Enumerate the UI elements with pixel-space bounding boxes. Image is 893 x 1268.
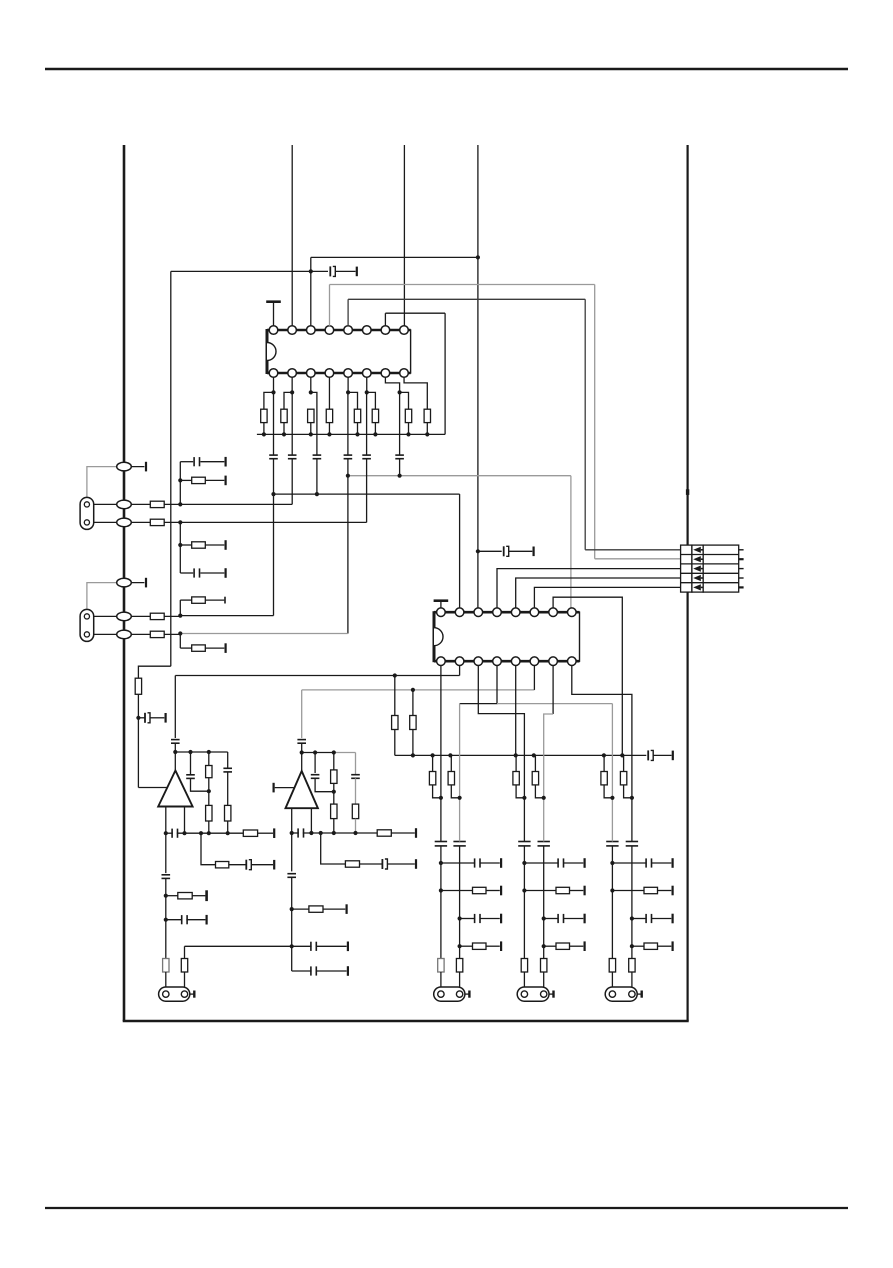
terminal op1 row3 [205, 890, 208, 901]
op-amp U3A [158, 771, 192, 807]
resistor group1 bias [448, 772, 454, 785]
wire cap to op2 bus [301, 743, 303, 752]
capacitor op1 fb [186, 775, 195, 779]
wire op1 conn a [165, 972, 167, 990]
wire group2 resistor top [515, 755, 517, 771]
wire op2 chain c upper [355, 753, 357, 775]
wire resistor pin4 to bus [328, 423, 330, 435]
wire group3 line B low [631, 972, 633, 990]
resistor net E to bus [410, 716, 416, 730]
wire pin5 chain lower [347, 459, 349, 634]
wire resistor pin5 to bus [357, 423, 359, 435]
wire U2 pin5 to CN2 row4 [516, 578, 681, 612]
wire group2 line B [543, 755, 545, 841]
terminal group2 row [583, 941, 585, 951]
wire op2 output line b [303, 832, 377, 834]
resistor pin8 [424, 409, 430, 422]
wire U2 pin4 to group1B [459, 704, 461, 756]
terminal group3 row [671, 886, 673, 896]
junction pin7 [398, 390, 402, 394]
junction pin2 [290, 390, 294, 394]
wire net R2 down [594, 285, 596, 559]
junction op2 out r lead [309, 831, 313, 835]
junction resistor pin1 bus [262, 432, 266, 436]
resistor oval5 [150, 613, 164, 619]
wire op2 chain c low [355, 819, 357, 833]
resistor group1 out A [438, 959, 444, 973]
wire op2 r chain upper [333, 753, 335, 770]
wire net C horizontal [274, 493, 460, 495]
resistor op1 conn b [181, 959, 187, 973]
capacitor op1 input [171, 740, 180, 744]
wire net V3 from top to U2 pin3 [477, 145, 479, 612]
wire group3 row [632, 945, 644, 947]
wire oval2 to resistor [124, 503, 150, 505]
wire op1 r chain low [208, 821, 210, 833]
wire oval4 stub [124, 582, 144, 584]
junction pin7 chain gray net [398, 474, 402, 478]
wire U2 pin2 drop [459, 661, 461, 675]
terminal oval6 resistor [225, 643, 227, 653]
wire oval2 branch up [179, 462, 181, 505]
junction pin6 [365, 390, 369, 394]
wire U1 pin5 up [347, 299, 349, 326]
wire group1 resistor to line [433, 785, 441, 798]
junction resistor pin2 bus [282, 432, 286, 436]
capacitor group1 row [475, 914, 480, 923]
wire oval2 resistor to terminal [205, 479, 224, 481]
resistor oval6 [150, 631, 164, 637]
wire CN1a hole1 to oval2 [94, 503, 117, 505]
wire group3 row [632, 918, 647, 920]
wire op2 r chain mid [333, 783, 335, 804]
wire oval6 branch down [179, 634, 181, 649]
junction resistor pin8 bus [425, 432, 429, 436]
junction group2 row [522, 888, 526, 892]
capacitor bus2 [648, 750, 653, 760]
junction group2 bias [542, 796, 546, 800]
terminal group1 row [500, 914, 502, 924]
terminal op2 row3 [346, 904, 348, 914]
wire group1 row [460, 945, 473, 947]
resistor oval2 [150, 501, 164, 507]
wire net E down to op2 cap [301, 690, 303, 738]
resistor pin3 [308, 409, 314, 422]
wire pin3 jog down [311, 392, 317, 451]
wire group2 row [524, 890, 556, 892]
junction resistor pin4 bus [327, 432, 331, 436]
wire op1 row4 [166, 919, 183, 921]
connector CN2 arrow pin4 [693, 575, 703, 581]
terminal input branch [165, 713, 167, 723]
wire gray net to U2 pin8 [348, 475, 571, 477]
wire U2 pin7 down [552, 666, 554, 715]
junction op1 bus apex [173, 750, 177, 754]
wire group2 row [544, 918, 559, 920]
junction net D / R chain [393, 673, 397, 677]
wire oval6 net [180, 633, 348, 635]
capacitor op1 c [223, 768, 232, 772]
terminal oval5 resistor [224, 597, 226, 604]
wire U2 pin4 jog [460, 666, 497, 704]
wire group3 line A [611, 755, 613, 841]
wire op1 chain c mid [227, 772, 229, 805]
connector CN1a [80, 497, 94, 529]
wire V3 cap to terminal [509, 550, 533, 552]
terminal op2 row2 [415, 859, 417, 869]
resistor group2 bias [532, 772, 538, 785]
wire group2 row [544, 945, 556, 947]
connector CN2 arrow pin2 [693, 556, 703, 562]
terminal of C1 [356, 267, 358, 277]
wire group2 line B low [543, 972, 545, 990]
junction op1 bus a [188, 750, 192, 754]
wire op1 r chain upper [208, 752, 210, 766]
junction oval3 branch [178, 520, 182, 524]
resistor op2 fb1 [331, 770, 337, 784]
wire pin6 resistor branch [367, 392, 376, 409]
wire pin5 resistor branch [348, 392, 357, 409]
junction group1 bias [439, 796, 443, 800]
junction net F op2 [290, 944, 294, 948]
junction net E / R chain [411, 688, 415, 692]
resistor group2 row [556, 943, 570, 949]
junction op2 row3 [290, 907, 294, 911]
connector CN2 arrow pin1 [693, 547, 703, 553]
wire group3 resistor top [623, 755, 625, 771]
wire U1 pin7 down jog [385, 377, 399, 392]
capacitor op1 input branch [145, 713, 150, 723]
wire group3 resistor to line [604, 785, 612, 798]
wire group2 resistor to line [535, 785, 543, 798]
wire net D resistor drop [394, 676, 396, 716]
junction op2 out c1 [332, 831, 336, 835]
capacitor op2 input [297, 740, 306, 744]
wire group2 line A mid [523, 846, 525, 959]
junction bus2 [532, 753, 536, 757]
capacitor pin1 chain [269, 455, 278, 459]
junction group2 row [542, 944, 546, 948]
capacitor op2 left [287, 874, 296, 878]
wire pin6 chain [366, 392, 368, 455]
junction bus2 [431, 753, 435, 757]
wire group1 resistor to line [451, 785, 459, 798]
wire resistor pin3 to bus [310, 423, 312, 435]
wire op2 inverting input [275, 787, 294, 789]
wire group2 line A low [523, 972, 525, 990]
wire group2 line A [523, 755, 525, 841]
junction net A / V3 [476, 255, 480, 259]
wire op1 conn b [184, 946, 186, 989]
wire op2 apex [301, 753, 303, 772]
wire op1 base left lead [165, 807, 167, 834]
junction group3 bias [630, 796, 634, 800]
wire group1 line A [440, 755, 442, 841]
terminal oval4 [145, 578, 147, 588]
wire op2 out to terminal [391, 832, 415, 834]
wire resistor pin8 to bus [426, 423, 428, 435]
wire group2 rowb [570, 890, 584, 892]
wire U1 pin6 down [366, 377, 368, 392]
capacitor group1 line B [453, 842, 465, 846]
wire op2 row5b [316, 970, 347, 972]
wire group3 line A mid [611, 846, 613, 959]
wire op2 row3 [292, 908, 309, 910]
connector CN2 stub pin4 [739, 577, 744, 579]
junction oval3 resistor branch [178, 543, 182, 547]
junction group3 row [630, 944, 634, 948]
wire U1 pin8 down jog [404, 377, 427, 409]
resistor group1 out B [456, 959, 462, 973]
junction op2 bus b [332, 750, 336, 754]
wire group3 row [612, 890, 644, 892]
wire group3 resistor to line [624, 785, 632, 798]
wire oval6 resistor to terminal [205, 647, 224, 649]
junction oval5 branch [178, 614, 182, 618]
junction input cap branch [136, 716, 140, 720]
wire op1 top bus [175, 751, 227, 753]
wire op1 row3 [166, 895, 178, 897]
terminal op1 row4 [206, 915, 208, 925]
resistor op1 fb2 [206, 805, 212, 821]
wire C1 to terminal [336, 270, 356, 272]
wire pin7 chain lower [399, 459, 401, 476]
wire U2 pin7 up to bus [553, 597, 622, 755]
resistor op1 c [225, 805, 231, 821]
connector CN2 stub pin3 [739, 568, 744, 570]
junction oval6 branch [178, 631, 182, 635]
wire oval2 net [180, 503, 292, 505]
wire pin6 chain lower [366, 459, 368, 523]
wire group3 row [612, 862, 646, 864]
resistor group3 bias [601, 772, 607, 785]
terminal group1 row [500, 858, 502, 868]
capacitor C1 [330, 266, 335, 276]
frame right border [686, 145, 688, 1021]
wire CN1a to oval1 [87, 467, 117, 498]
wire net B down left side [170, 271, 172, 666]
capacitor pin3 chain [313, 455, 322, 459]
capacitor group2 line B [538, 842, 550, 846]
wire pin1 chain [273, 392, 275, 455]
wire op1 output line b [177, 832, 244, 834]
wire pin2 chain [291, 392, 293, 455]
junction op1 row3 [164, 894, 168, 898]
capacitor oval3 branch [194, 568, 199, 577]
junction pin1 / net C [271, 492, 275, 496]
rail bar above U1 pin1 [266, 300, 281, 303]
wire U2 pin6 to CN2 row5 [534, 587, 680, 612]
wire oval3 branch down [179, 522, 181, 573]
capacitor group2 row [558, 914, 563, 923]
terminal group1 row [500, 886, 502, 896]
junction group1 row [458, 944, 462, 948]
terminal op2 input [273, 783, 275, 793]
wire CN1b hole1 to oval5 [94, 615, 117, 617]
wire oval5 resistor branch [180, 599, 191, 601]
capacitor group3 line B [626, 842, 638, 846]
resistor op1 out [243, 830, 257, 836]
wire group1 rowb [480, 862, 500, 864]
wire oval2 cap to terminal [200, 461, 224, 463]
wire group3 line A low [611, 972, 613, 990]
capacitor op1 row2 [246, 860, 251, 870]
junction group1 row [439, 888, 443, 892]
terminal group2 row [583, 858, 585, 868]
wire op2 row5 [292, 970, 312, 972]
wire group1 line A low [440, 972, 442, 990]
wire group3 resistor top [603, 755, 605, 771]
wire group1 resistor top [450, 755, 452, 771]
resistor group3 bias [620, 772, 626, 785]
resistor op2 out [377, 830, 391, 836]
resistor op1 row2 [216, 862, 229, 868]
wire group1 line B [459, 755, 461, 841]
wire V3 cap branch [478, 550, 502, 552]
frame left border [123, 145, 126, 1021]
pad oval1 [117, 462, 132, 471]
wire oval5 resistor to terminal [205, 599, 224, 601]
wire rail net E gray [302, 689, 535, 691]
junction op1 out c1 [207, 831, 211, 835]
junction pin1 [271, 390, 275, 394]
wire net D resistor to bus [394, 730, 396, 756]
wire group3 line B [631, 755, 633, 841]
bus2 rail [395, 754, 647, 756]
connector CN1b [80, 609, 94, 641]
wire U2 pin7 to group2B [544, 714, 553, 755]
resistor op2 row3 [309, 906, 323, 912]
connector group1 [434, 987, 470, 1001]
capacitor op1 left [162, 875, 171, 879]
wire op1 base right lead [184, 807, 186, 834]
wire net C to U2 pin2 [459, 494, 461, 612]
wire pin2 resistor branch [284, 392, 292, 409]
capacitor group3 row [646, 914, 651, 923]
wire oval5 net [180, 615, 273, 617]
pad oval4 [117, 578, 132, 587]
connector group3 [605, 987, 642, 1001]
wire to op1 inverting input [138, 787, 167, 789]
wire group2 rowb [570, 945, 584, 947]
wire oval3 resistor to terminal [205, 544, 224, 546]
wire pin7 resistor branch [400, 392, 409, 409]
wire U2 pin1 to group1A [440, 666, 442, 756]
terminal oval2 resistor [225, 476, 227, 486]
terminal op2 out [415, 828, 417, 838]
wire op1 left chain2 [165, 878, 167, 958]
junction op1 out r lead [182, 831, 186, 835]
junction bus2 [620, 753, 624, 757]
wire op1 cap a lower [191, 778, 209, 791]
terminal oval3 resistor [225, 540, 227, 550]
resistor group2 bias [513, 772, 519, 785]
connector CN3 op1 [159, 987, 195, 1001]
junction group2 row [522, 861, 526, 865]
wire op1 branch row [201, 833, 216, 865]
wire U2 pin4 to group3A [497, 703, 612, 705]
wire net SDA from top [291, 145, 293, 326]
resistor op1 conn a [163, 959, 169, 973]
wire op2 chain c mid [355, 778, 357, 804]
bus2 to terminal [653, 754, 672, 756]
capacitor group2 row [558, 858, 563, 867]
wire CN1a hole2 to oval3 [94, 521, 117, 523]
wire group2 resistor to line [516, 785, 524, 798]
wire pin3 chain lower2 [316, 459, 318, 494]
wire pin2 chain lower [291, 459, 293, 505]
wire op2 cap a upper [314, 753, 316, 774]
wire oval5 branch up [179, 600, 181, 616]
wire oval3 to resistor [124, 521, 150, 523]
junction group1 row [458, 916, 462, 920]
junction op2 bus a [313, 750, 317, 754]
wire op1 r chain mid [208, 778, 210, 806]
capacitor group3 row [646, 858, 651, 867]
IC U1 [267, 326, 411, 378]
wire to capacitor C1 [311, 270, 328, 272]
wire pin1 resistor branch [264, 392, 274, 409]
wire group1 rowb [486, 945, 500, 947]
wire group3 rowb [651, 918, 671, 920]
connector CN2 body [681, 545, 739, 592]
terminal oval2 cap [225, 457, 227, 467]
wire resistor oval3 out [164, 521, 181, 523]
resistor group2 out A [521, 959, 527, 973]
wire resistor oval2 out [164, 503, 181, 505]
wire down right of U1 [444, 313, 446, 434]
capacitor op2 fb [311, 775, 320, 779]
terminal op1 row2 [273, 860, 275, 870]
wire U2 pin6 drop [533, 661, 535, 690]
terminal group2 row [583, 886, 585, 896]
terminal op2 row5 [347, 966, 349, 976]
wire net SCL from top [403, 145, 405, 326]
junction group1 row [439, 861, 443, 865]
wire op1 out to terminal [258, 832, 273, 834]
junction op1 out branch [199, 831, 203, 835]
capacitor op2 row5 [311, 966, 316, 975]
resistor oval6 branch [192, 645, 206, 651]
wire net A horizontal [311, 256, 478, 258]
connector CN2 stub pin5 [739, 586, 744, 588]
wire oval3 cap to terminal [200, 572, 224, 574]
top rule [45, 68, 848, 70]
resistor pin6 [372, 409, 378, 422]
wire op1 chain c upper [227, 752, 229, 768]
junction group3 bias [610, 796, 614, 800]
capacitor pin5 chain [344, 455, 353, 459]
resistor pin4 [326, 409, 332, 422]
terminal V3 branch [532, 547, 534, 557]
bus under U1 [257, 433, 445, 435]
wire group1 row [441, 862, 475, 864]
connector CN2 arrow pin3 [693, 566, 703, 572]
resistor group3 row [644, 887, 658, 893]
wire group1 rowb [480, 918, 500, 920]
resistor group2 row [556, 887, 570, 893]
resistor group3 row [644, 943, 658, 949]
wire gray net down [570, 476, 572, 613]
capacitor op1 output [172, 829, 177, 838]
wire net E resistor to bus [412, 730, 414, 756]
IC U2 [434, 608, 580, 666]
wire net R1 horizontal [348, 298, 585, 300]
resistor op2 fb2 [331, 804, 337, 819]
resistor oval5 branch [192, 597, 206, 603]
capacitor V3 branch [504, 546, 509, 556]
pad oval5 [117, 612, 132, 621]
